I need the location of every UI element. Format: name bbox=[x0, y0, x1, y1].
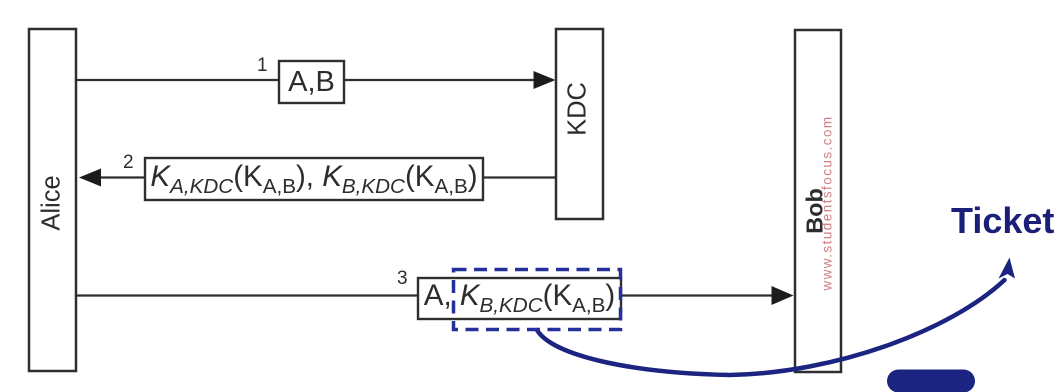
step number 2 bbox=[123, 153, 134, 172]
label KDC bbox=[563, 82, 592, 136]
label Bob bbox=[802, 188, 829, 234]
wire arrow 2: KDC to Alice bbox=[96, 176, 555, 178]
step number 1 bbox=[257, 56, 268, 75]
dashed ticket highlight box bbox=[454, 270, 621, 330]
logo pill bottom right bbox=[887, 370, 975, 392]
message text 3: A, K_B,KDC(K_A,B) bbox=[418, 278, 621, 319]
label Ticket bbox=[951, 203, 1054, 239]
step number 3 bbox=[397, 269, 408, 288]
entity box Bob bbox=[795, 30, 841, 372]
message box 2 (keys from KDC) bbox=[145, 158, 483, 200]
arrowhead 3 at Bob bbox=[772, 286, 794, 305]
arrowhead 2 at Alice bbox=[79, 169, 101, 187]
wire arrow 1: Alice to KDC bbox=[77, 79, 537, 81]
message text 1: A,B bbox=[279, 61, 344, 103]
blue curved arrow from ticket to label bbox=[537, 258, 1015, 376]
message box 3 (A, ticket) bbox=[418, 278, 621, 319]
watermark red text bbox=[820, 115, 835, 290]
arrowhead 1 at KDC bbox=[534, 71, 556, 89]
wire arrow 3: Alice to Bob bbox=[77, 294, 775, 296]
entity box KDC bbox=[556, 29, 603, 219]
label Alice bbox=[38, 175, 67, 230]
entity box Alice bbox=[29, 29, 76, 371]
message text 2: K_A,KDC(K_A,B), K_B,KDC(K_A,B) bbox=[145, 158, 483, 200]
message box 1 (A,B) bbox=[279, 61, 344, 103]
